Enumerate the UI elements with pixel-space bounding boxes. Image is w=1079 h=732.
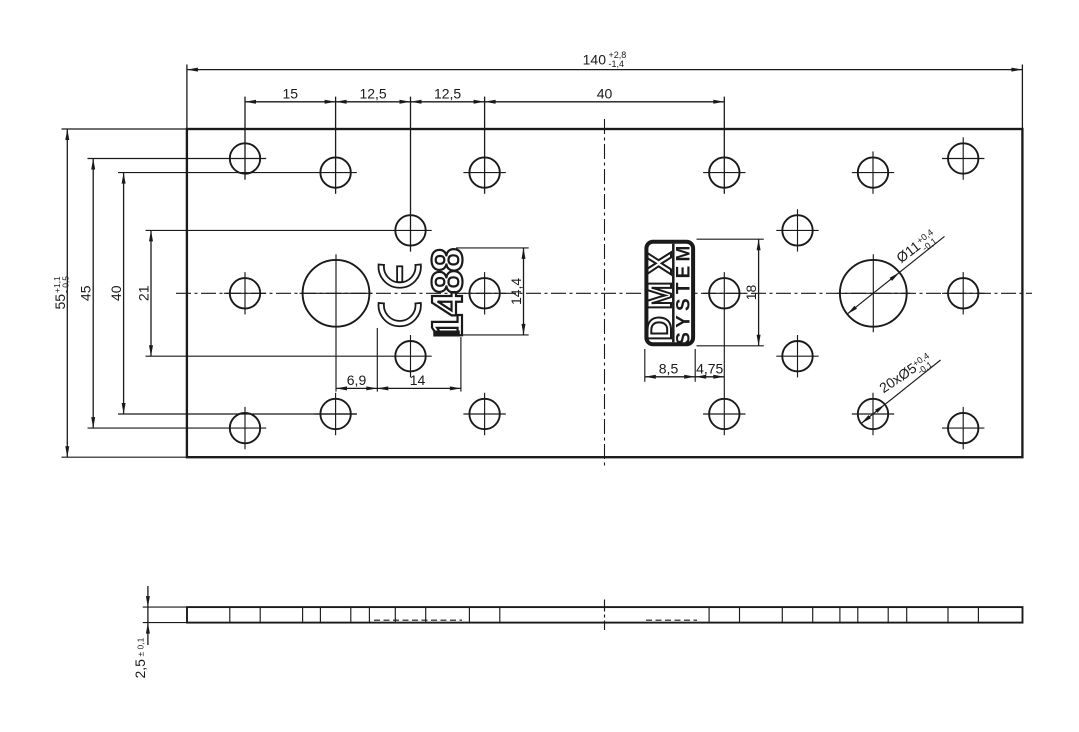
big hole H2 (D11 right) bbox=[840, 260, 907, 327]
hole A1 (small hole D5) bbox=[230, 143, 260, 173]
svg-text:SYSTEM: SYSTEM bbox=[674, 241, 695, 344]
leader diameter 11 +0,4/-0,1 bbox=[847, 236, 944, 314]
DMX SYSTEM logo bbox=[641, 241, 695, 344]
dimension 55 +1,1/-0,5 (overall height) bbox=[62, 128, 187, 130]
hole B2 (small hole D5) bbox=[469, 157, 499, 187]
svg-text:18: 18 bbox=[743, 285, 759, 301]
svg-text:- 0,5: - 0,5 bbox=[60, 276, 70, 293]
hole F3 (small hole D5) bbox=[709, 399, 739, 429]
plate outline (top view) bbox=[187, 129, 1023, 457]
svg-text:40: 40 bbox=[108, 285, 124, 301]
hole B4 (small hole D5) bbox=[858, 157, 888, 187]
dimension 14,4 (stamp height) bbox=[456, 247, 529, 249]
hole D1 (small hole D5) bbox=[230, 278, 260, 308]
hole G2 (small hole D5) bbox=[948, 413, 978, 443]
hole G1 (small hole D5) bbox=[230, 413, 260, 443]
side view hole edge lines bbox=[229, 607, 231, 623]
svg-text:± 0,1: ± 0,1 bbox=[136, 637, 146, 656]
dimension chain 15 / 12,5 / 12,5 / 40 bbox=[244, 97, 246, 180]
svg-text:14,4: 14,4 bbox=[508, 278, 524, 305]
svg-text:4,75: 4,75 bbox=[696, 360, 723, 376]
svg-text:140: 140 bbox=[583, 52, 607, 68]
hole F1 (small hole D5) bbox=[320, 399, 350, 429]
dimension 18 (logo height) bbox=[697, 238, 764, 240]
svg-text:55: 55 bbox=[52, 294, 68, 310]
dimension 45 bbox=[88, 158, 267, 160]
hole E1 (small hole D5) bbox=[395, 341, 425, 371]
hole D2 (small hole D5) bbox=[469, 278, 499, 308]
hole C1 (small hole D5) bbox=[395, 215, 425, 245]
hole F2 (small hole D5) bbox=[469, 399, 499, 429]
svg-text:2,5: 2,5 bbox=[132, 659, 148, 679]
svg-text:40: 40 bbox=[597, 85, 613, 101]
CE mark (rotated stamp) bbox=[379, 265, 421, 288]
side view plate strip bbox=[187, 607, 1023, 623]
dimension 6,9 / 14 bbox=[335, 254, 337, 391]
svg-text:45: 45 bbox=[78, 285, 94, 301]
vertical centerline bbox=[604, 119, 606, 467]
hole D4 (small hole D5) bbox=[948, 278, 978, 308]
horizontal centerline bbox=[176, 292, 1032, 294]
hole E2 (small hole D5) bbox=[782, 341, 812, 371]
svg-text:12,5: 12,5 bbox=[359, 85, 386, 101]
hole F4 (small hole D5) bbox=[858, 399, 888, 429]
hole D3 (small hole D5) bbox=[709, 278, 739, 308]
big hole H1 (D11 left) bbox=[303, 260, 370, 327]
side view centerline bbox=[604, 600, 606, 631]
svg-text:1488: 1488 bbox=[424, 249, 472, 338]
side view hidden stamp lines bbox=[374, 619, 462, 621]
hole C2 (small hole D5) bbox=[782, 215, 812, 245]
svg-text:8,5: 8,5 bbox=[659, 360, 679, 376]
svg-text:12,5: 12,5 bbox=[434, 85, 461, 101]
dimension 40 (left) bbox=[118, 172, 357, 174]
svg-text:6,9: 6,9 bbox=[347, 372, 367, 388]
svg-text:-1,4: -1,4 bbox=[609, 59, 625, 69]
hole B1 (small hole D5) bbox=[320, 157, 350, 187]
dimension 2,5 plus/minus 0,1 (thickness) bbox=[143, 606, 187, 608]
svg-text:21: 21 bbox=[135, 285, 151, 301]
svg-text:14: 14 bbox=[410, 372, 426, 388]
svg-text:15: 15 bbox=[283, 85, 299, 101]
dimension 21 bbox=[146, 229, 432, 231]
stamp text 1488 bbox=[424, 249, 472, 338]
hole A2 (small hole D5) bbox=[948, 143, 978, 173]
crosshairs for holes bbox=[872, 151, 874, 193]
dimension 8,5 / 4,75 bbox=[644, 349, 646, 382]
extension line through holes D3/F3 bbox=[723, 272, 725, 435]
leader 20x diameter 5 +0,4/-0,1 bbox=[861, 360, 941, 424]
hole B3 (small hole D5) bbox=[709, 157, 739, 187]
dimension 140 +2,8/-1,4 (overall width) bbox=[186, 65, 188, 130]
